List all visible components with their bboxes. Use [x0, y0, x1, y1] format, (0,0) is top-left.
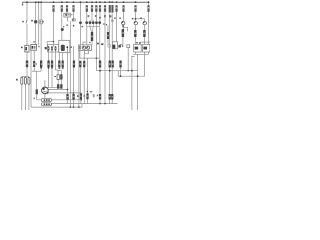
label tick near switch x27: [22, 21, 24, 23]
tick right of x80 dot: [81, 26, 83, 27]
ticks x97-103: [97, 43, 99, 45]
fuse F7 x96.3: [95, 5, 97, 12]
relay box x65-70 y13: [64, 13, 70, 17]
dark comp on x27 y60-70: [26, 61, 28, 68]
wire drop x100: [99, 12, 101, 21]
feed arrowhead: [22, 4, 24, 6]
wire x144.2 lower: [143, 25, 145, 30]
wire drop x62: [61, 12, 63, 28]
switch kink Q0: [26, 24, 28, 45]
fuse F10 x116.5: [115, 5, 117, 12]
fuse F13 x148.5: [147, 5, 149, 12]
motor outputs: [48, 92, 82, 94]
wire drop x73.5: [73, 12, 75, 19]
switch comp on x41.1: [40, 20, 43, 24]
wire x87.5 lower: [87, 99, 89, 103]
tick above box: [33, 41, 34, 43]
comp on x92 y32-41: [91, 32, 93, 41]
stack comps near 57.5 x: [57, 75, 59, 80]
overload comps mid row y60.5-67.5: [40, 61, 122, 68]
fuse F2 x61.8: [61, 5, 63, 12]
bottom comps row y94-99.5: [66, 93, 113, 99]
box K1 on x27: [25, 45, 29, 52]
motor bottom to pills: [44, 94, 46, 99]
CT bus and diagonals: [87, 20, 100, 32]
meter blob on x61.8: [61, 28, 64, 31]
connector circles row: [48, 46, 57, 50]
terminal pills: [41, 98, 51, 101]
horizontal net y76.2: [118, 75, 144, 77]
wire pair x109.7/x112.2: [109, 14, 111, 61]
CT circles x135.5/144.6: [134, 22, 137, 25]
wire drop x41.1: [40, 2, 42, 20]
stub wire x108: [107, 25, 109, 32]
wire drop x92: [91, 12, 93, 21]
branch to 144.6: [136, 18, 145, 20]
bus rail L1: [23, 1, 149, 3]
wire x84: [83, 67, 85, 95]
fuses on top row: [52, 5, 149, 13]
connector circles wires down: [48, 50, 50, 60]
motor stub: [44, 80, 46, 87]
fuse F9 x105: [104, 5, 106, 12]
fuse F8 x100: [99, 5, 101, 12]
CT circle x123.2: [122, 21, 125, 24]
wire drop x27: [26, 2, 28, 20]
junction dot x123 y26: [122, 25, 124, 27]
fuse F4 x73.5: [72, 5, 74, 12]
comp x52: [51, 61, 53, 68]
relay box RB1: [134, 44, 142, 52]
junction dots lower: [40, 67, 138, 108]
wire drop x35.7: [35, 2, 37, 20]
comp x123 y29-37: [122, 29, 124, 37]
current rings R1 R2 R3: [21, 77, 30, 84]
wire x120.5: [120, 68, 122, 77]
wire x70: [69, 21, 71, 107]
wire drop x135.5: [135, 12, 137, 19]
circle stub: [122, 25, 124, 29]
label tick x31.8: [31, 20, 33, 22]
device box output wires + dots: [58, 52, 60, 60]
buses under meter box: [84, 51, 88, 54]
wire drop x53.5: [53, 12, 55, 47]
wire x123: [121, 37, 123, 47]
comp x62.7: [62, 61, 64, 68]
comp x80.3: [79, 61, 81, 67]
junction dots on rail: [26, 1, 149, 3]
meter box with two circles: [79, 45, 92, 51]
wire drop x105: [104, 12, 106, 104]
comp x48.5: [47, 61, 49, 68]
comp x120.5: [119, 61, 121, 68]
wire x135 lower: [134, 25, 136, 30]
label tick left of K1: [21, 47, 23, 49]
wire drop x86.5: [86, 12, 88, 21]
fuse F6 x92: [91, 5, 93, 12]
T-bar and rings: [22, 75, 29, 77]
sensor blob on x35.7: [34, 20, 37, 23]
comp x73.5: [73, 61, 75, 68]
connector block outline: [48, 45, 59, 52]
left tall line: [30, 50, 32, 107]
wire pair 79/81: [78, 51, 80, 108]
left block column x27 lower: [26, 52, 28, 61]
wire drop x124: [123, 12, 125, 22]
fuse F11 x124: [122, 5, 124, 12]
stub to 127.3: [123, 27, 128, 31]
comp x100: [99, 61, 101, 68]
wire drop x116.5: [116, 12, 118, 42]
horizontal net y70.7: [96, 70, 137, 72]
wire drop x96.3: [95, 12, 97, 21]
comp x41.1: [40, 61, 42, 68]
comp left of motor: [36, 89, 38, 94]
fuse F5 x86.5: [86, 5, 88, 12]
relay box RB2: [143, 44, 150, 52]
pill outputs: [52, 99, 82, 101]
device box with circle x58.8-69.8: [59, 40, 70, 52]
comps x135/144.2 y30-37: [134, 30, 136, 37]
tick above RB1: [136, 42, 138, 43]
tick x122.5 y45.5: [122, 45, 123, 47]
wire drop x38.7: [38, 2, 40, 45]
label ticks x114.5/x119.6: [114, 18, 115, 19]
comp on x34.2 y61: [33, 61, 35, 67]
small marks under fuses x95-111: [95, 15, 97, 17]
fuse F1 x53.5: [52, 5, 54, 12]
half-dark box x112.4 y41.8: [112, 42, 117, 49]
wire drop x80: [79, 2, 81, 21]
lines below right boxes: [133, 53, 149, 55]
dark square x45.8: [45, 47, 47, 49]
fuse F12 x135.5: [134, 5, 136, 12]
comp x112.2: [112, 61, 114, 68]
wire drop x148.5: [148, 2, 150, 44]
comp x109.7: [109, 61, 111, 68]
CT dot row x80.5-99.7: [79, 21, 101, 24]
comp x84.2: [83, 61, 85, 67]
glyph x118.5-120.8: [118, 45, 120, 48]
comp x59.3: [58, 61, 60, 68]
motor M1: [42, 87, 49, 94]
wires under contactor box x34.2: [33, 50, 35, 61]
small box x127 y44.8: [127, 45, 130, 48]
branch to connector row: [47, 41, 53, 43]
contactor box on x34.2: [31, 44, 37, 50]
feed arrow: [22, 2, 24, 4]
fuse F3 x67: [66, 5, 68, 12]
comp F x108: [107, 32, 109, 39]
label tick x16.5 y79: [16, 79, 18, 81]
fuse pair x109.7/x112.2: [109, 5, 111, 13]
wire x112.2: [111, 14, 113, 61]
small box x72-75 y18.8: [72, 19, 75, 21]
bottom bus near motor: [45, 87, 62, 89]
wire drop x67: [66, 12, 68, 13]
tick x66.8 y24.8: [66, 24, 68, 26]
